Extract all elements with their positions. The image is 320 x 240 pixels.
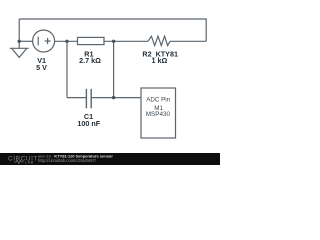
svg-text:2.7 kΩ: 2.7 kΩ [79, 56, 101, 65]
svg-text:http://circuitlab.com/c/2mdm97: http://circuitlab.com/c/2mdm97/ [38, 158, 97, 163]
svg-text:1 kΩ: 1 kΩ [152, 56, 168, 65]
svg-text:ADC Pin: ADC Pin [146, 97, 170, 104]
svg-text:5 V: 5 V [36, 63, 47, 72]
svg-text:100 nF: 100 nF [77, 119, 100, 128]
svg-text:MSP430: MSP430 [146, 111, 171, 118]
svg-text:LAB: LAB [25, 160, 34, 164]
